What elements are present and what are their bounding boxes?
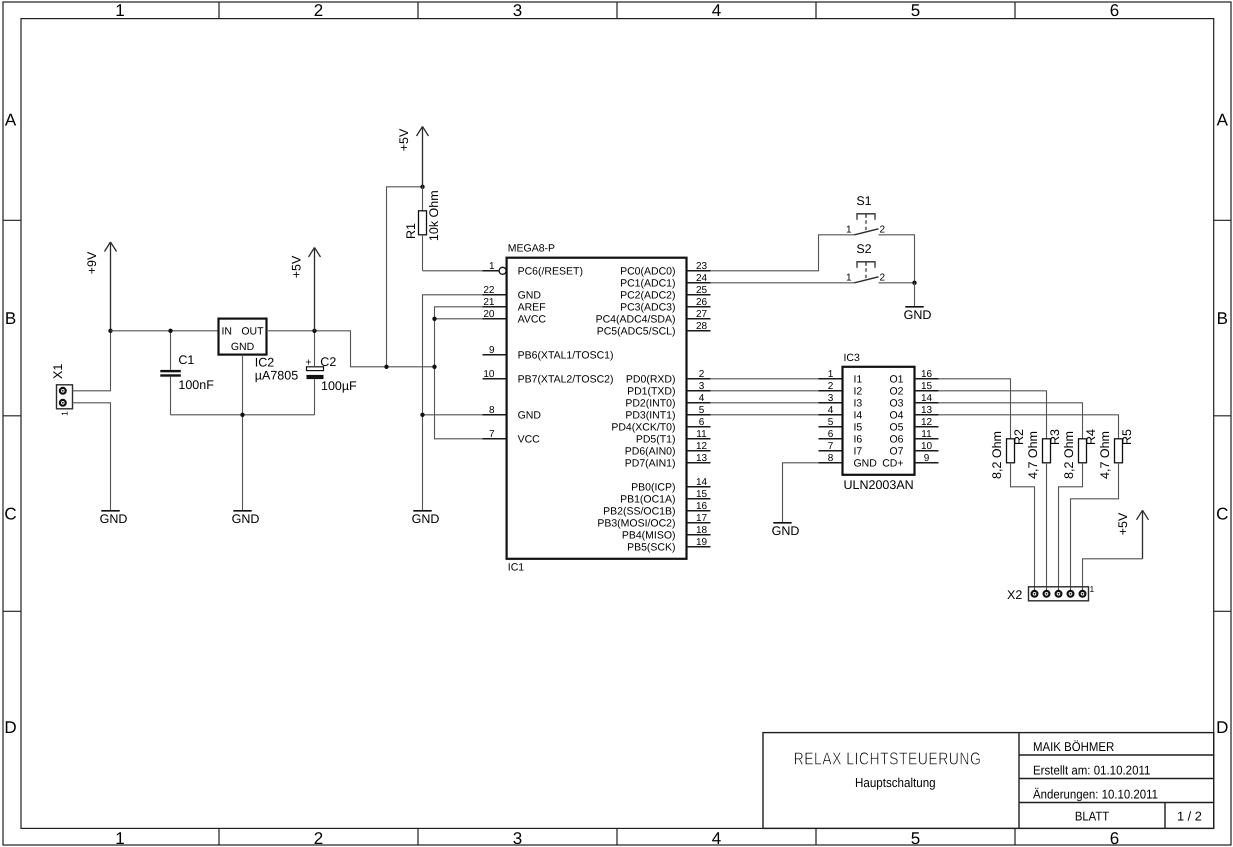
- svg-text:8: 8: [489, 405, 495, 416]
- wire IC3 O4 to R5: [939, 415, 1119, 439]
- node junction AVCC: [432, 317, 436, 321]
- supply +5V above C2: [309, 248, 321, 331]
- node junction IC2 gnd rail: [240, 413, 244, 417]
- wire C1 bottom: [170, 377, 172, 415]
- ground symbol below IC2: [232, 511, 260, 526]
- svg-text:AREF: AREF: [518, 301, 546, 313]
- svg-text:1: 1: [828, 369, 834, 380]
- svg-text:PB2(SS/OC1B): PB2(SS/OC1B): [603, 505, 675, 517]
- svg-text:3: 3: [513, 1, 522, 20]
- svg-text:+9V: +9V: [85, 251, 99, 274]
- wire R1 to PC6 reset: [423, 270, 500, 272]
- svg-text:11: 11: [921, 429, 932, 440]
- supply +5V at X2: [1137, 510, 1149, 559]
- svg-text:2: 2: [880, 225, 886, 236]
- svg-text:I4: I4: [854, 409, 863, 421]
- svg-text:1: 1: [1090, 584, 1095, 594]
- svg-text:2: 2: [828, 381, 834, 392]
- wire IC1 pin24 to S2: [711, 282, 855, 284]
- svg-text:7: 7: [489, 429, 495, 440]
- svg-text:+5V: +5V: [1116, 512, 1130, 535]
- ground symbol below S2: [904, 307, 932, 322]
- svg-text:20: 20: [483, 309, 495, 320]
- svg-text:X1: X1: [51, 364, 65, 379]
- wire X1 pin2 to +9V rail: [73, 331, 111, 391]
- svg-text:I1: I1: [854, 373, 863, 385]
- svg-text:Erstellt am: 01.10.2011: Erstellt am: 01.10.2011: [1033, 763, 1150, 778]
- wire AREF/AVCC/VCC net: [435, 307, 483, 439]
- wire R2 to X2 pin1: [1011, 463, 1035, 594]
- svg-text:27: 27: [696, 309, 708, 320]
- svg-text:RELAX LICHTSTEUERUNG: RELAX LICHTSTEUERUNG: [794, 748, 982, 768]
- wire C2 bottom: [314, 379, 316, 415]
- svg-text:C1: C1: [178, 353, 194, 367]
- frame column dividers bottom: [219, 828, 1015, 845]
- svg-text:17: 17: [696, 513, 708, 524]
- frame row dividers right: [1214, 220, 1231, 611]
- svg-text:2: 2: [880, 273, 886, 284]
- IC3 right pin numbers: [921, 369, 933, 464]
- title block box: [763, 733, 1214, 829]
- svg-text:Änderungen: 10.10.2011: Änderungen: 10.10.2011: [1033, 787, 1158, 802]
- svg-text:PD6(AIN0): PD6(AIN0): [625, 445, 676, 457]
- node junction +5V rail VCC: [432, 365, 436, 369]
- svg-text:8: 8: [828, 453, 834, 464]
- svg-text:18: 18: [696, 525, 708, 536]
- svg-text:I7: I7: [854, 445, 863, 457]
- IC3 left pin names: [854, 373, 878, 469]
- frame column dividers top: [219, 2, 1015, 19]
- IC3 left pin numbers: [828, 369, 834, 464]
- resistor R2: [1007, 439, 1015, 463]
- wire IC1 pin22 GND net: [423, 295, 483, 511]
- wire IC3 O2 to R3: [939, 391, 1047, 439]
- svg-text:AVCC: AVCC: [518, 313, 547, 325]
- svg-text:µA7805: µA7805: [255, 368, 298, 382]
- svg-text:+5V: +5V: [397, 128, 411, 151]
- wire +5V rail to R1 top: [387, 187, 423, 367]
- svg-text:C: C: [1216, 505, 1228, 524]
- IC3 right pin names: [882, 373, 903, 469]
- svg-text:I2: I2: [854, 385, 863, 397]
- wire S2 pin2 to GND: [879, 282, 915, 284]
- svg-text:O5: O5: [889, 421, 903, 433]
- svg-text:9: 9: [489, 345, 495, 356]
- wire C2 top: [314, 331, 316, 367]
- ground symbol below X1: [100, 511, 128, 526]
- supply +5V above R1: [417, 127, 429, 187]
- svg-text:PC6(/RESET): PC6(/RESET): [518, 265, 583, 277]
- svg-text:22: 22: [483, 285, 495, 296]
- svg-text:10k Ohm: 10k Ohm: [427, 190, 441, 241]
- capacitor C2 polarized: [305, 357, 323, 380]
- svg-text:12: 12: [921, 417, 933, 428]
- svg-text:1: 1: [846, 225, 852, 236]
- svg-text:GND: GND: [231, 341, 255, 353]
- svg-text:3: 3: [828, 393, 834, 404]
- svg-text:D: D: [4, 718, 16, 737]
- svg-text:I5: I5: [854, 421, 863, 433]
- svg-text:PD5(T1): PD5(T1): [636, 433, 676, 445]
- svg-text:C2: C2: [320, 355, 336, 369]
- svg-text:4: 4: [712, 829, 721, 847]
- svg-text:PC4(ADC4/SDA): PC4(ADC4/SDA): [596, 313, 676, 325]
- svg-text:2: 2: [699, 369, 705, 380]
- svg-text:X2: X2: [1007, 588, 1022, 602]
- wire IC1 pin8 GND: [423, 414, 483, 416]
- svg-text:GND: GND: [518, 409, 542, 421]
- svg-text:D: D: [1216, 718, 1228, 737]
- svg-text:6: 6: [1110, 1, 1119, 20]
- svg-text:R2: R2: [1012, 429, 1026, 445]
- connector X1: [57, 385, 73, 409]
- svg-text:PD7(AIN1): PD7(AIN1): [625, 457, 676, 469]
- svg-text:GND: GND: [904, 308, 932, 322]
- svg-text:O6: O6: [889, 433, 903, 445]
- svg-text:1: 1: [115, 1, 124, 20]
- svg-text:6: 6: [828, 429, 834, 440]
- node junction X1/+9V: [108, 329, 112, 333]
- wire IC3 O1 to R2: [939, 379, 1011, 439]
- frame row letters left: [4, 111, 16, 737]
- svg-text:14: 14: [696, 477, 708, 488]
- ground symbol below IC3: [772, 523, 800, 538]
- node junction +5V rail R1 branch: [384, 365, 388, 369]
- svg-text:PC2(ADC2): PC2(ADC2): [620, 289, 675, 301]
- svg-text:I3: I3: [854, 397, 863, 409]
- microcontroller IC1 MEGA8-P box: [507, 258, 687, 559]
- svg-text:PD3(INT1): PD3(INT1): [625, 409, 675, 421]
- svg-text:10: 10: [483, 369, 495, 380]
- frame column numbers bottom: [115, 829, 1119, 847]
- svg-text:4: 4: [828, 405, 834, 416]
- svg-text:12: 12: [696, 441, 708, 452]
- svg-text:PD2(INT0): PD2(INT0): [625, 397, 675, 409]
- wire IC3 pin8 to GND: [783, 463, 819, 523]
- svg-text:5: 5: [911, 1, 920, 20]
- svg-text:A: A: [5, 111, 17, 130]
- resistor R5: [1115, 439, 1123, 463]
- resistor R3: [1043, 439, 1051, 463]
- svg-text:28: 28: [696, 321, 708, 332]
- svg-text:4: 4: [712, 1, 721, 20]
- svg-text:PC3(ADC3): PC3(ADC3): [620, 301, 675, 313]
- svg-text:GND: GND: [772, 524, 800, 538]
- svg-text:2: 2: [314, 1, 323, 20]
- svg-text:5: 5: [911, 829, 920, 847]
- svg-text:O4: O4: [889, 409, 903, 421]
- frame column numbers top: [115, 1, 1119, 20]
- svg-text:19: 19: [696, 537, 708, 548]
- svg-text:3: 3: [513, 829, 522, 847]
- svg-text:GND: GND: [412, 512, 440, 526]
- IC1 left pin stubs: [483, 271, 507, 439]
- IC3 left pin stubs: [819, 379, 843, 463]
- svg-text:14: 14: [921, 393, 933, 404]
- wire down to GND below S2: [914, 283, 916, 307]
- svg-text:10: 10: [921, 441, 933, 452]
- wire IC1 pin23 to S1: [711, 235, 855, 271]
- svg-text:ULN2003AN: ULN2003AN: [844, 478, 914, 492]
- node junction C1 top: [168, 329, 172, 333]
- svg-text:PB4(MISO): PB4(MISO): [622, 529, 676, 541]
- svg-text:PD1(TXD): PD1(TXD): [627, 385, 675, 397]
- svg-text:I6: I6: [854, 433, 863, 445]
- svg-text:O7: O7: [889, 445, 903, 457]
- svg-text:GND: GND: [100, 512, 128, 526]
- svg-text:B: B: [1217, 309, 1228, 328]
- svg-text:CD+: CD+: [882, 457, 903, 469]
- IC3 right pin stubs: [915, 379, 939, 463]
- svg-text:PB5(SCK): PB5(SCK): [627, 541, 675, 553]
- svg-text:26: 26: [696, 297, 708, 308]
- svg-text:9: 9: [924, 453, 930, 464]
- svg-text:4,7 Ohm: 4,7 Ohm: [1098, 431, 1112, 479]
- svg-text:MAIK BÖHMER: MAIK BÖHMER: [1033, 739, 1114, 754]
- svg-text:2: 2: [314, 829, 323, 847]
- svg-text:PD0(RXD): PD0(RXD): [626, 373, 676, 385]
- svg-text:5: 5: [699, 405, 705, 416]
- svg-text:16: 16: [921, 369, 933, 380]
- svg-text:VCC: VCC: [518, 433, 541, 445]
- node junction S2 GND: [912, 281, 916, 285]
- wires IC1 PD0-PD3 to IC3 I1-I4: [711, 379, 819, 415]
- svg-text:C: C: [4, 505, 16, 524]
- svg-text:13: 13: [921, 405, 933, 416]
- svg-text:MEGA8-P: MEGA8-P: [508, 242, 555, 254]
- svg-text:Hauptschaltung: Hauptschaltung: [855, 775, 936, 790]
- voltage regulator IC2 box: [219, 319, 267, 355]
- connector X2: [1029, 587, 1089, 601]
- wire R3 to X2 pin2: [1046, 463, 1048, 594]
- svg-text:GND: GND: [232, 512, 260, 526]
- wire gnd rail C1 to C2: [171, 414, 315, 416]
- supply +9V: [105, 242, 117, 331]
- svg-text:PC0(ADC0): PC0(ADC0): [620, 265, 675, 277]
- svg-text:S1: S1: [856, 194, 871, 208]
- IC1 right pin numbers: [696, 261, 708, 548]
- svg-text:1: 1: [60, 411, 70, 416]
- wire AVCC stub join: [435, 318, 483, 320]
- svg-text:GND: GND: [518, 289, 542, 301]
- svg-text:O1: O1: [889, 373, 903, 385]
- svg-text:PD4(XCK/T0): PD4(XCK/T0): [611, 421, 675, 433]
- svg-text:R4: R4: [1084, 429, 1098, 445]
- svg-text:1: 1: [489, 261, 495, 272]
- svg-text:6: 6: [1110, 829, 1119, 847]
- wire IC2 GND down: [242, 355, 244, 511]
- svg-text:6: 6: [699, 417, 705, 428]
- svg-text:+: +: [305, 357, 311, 369]
- driver IC3 ULN2003AN box: [843, 367, 915, 475]
- wire +9V rail to IC2 IN: [111, 330, 219, 332]
- svg-text:7: 7: [828, 441, 834, 452]
- svg-text:25: 25: [696, 285, 708, 296]
- switch S2: [846, 262, 886, 284]
- svg-text:5: 5: [828, 417, 834, 428]
- svg-text:O3: O3: [889, 397, 903, 409]
- wire R5 to X2 pin4: [1071, 463, 1119, 594]
- node junction R1 top: [420, 185, 424, 189]
- svg-text:1: 1: [115, 829, 124, 847]
- svg-text:S2: S2: [856, 242, 871, 256]
- svg-text:21: 21: [483, 297, 495, 308]
- svg-text:GND: GND: [854, 457, 878, 469]
- inverter circle PC6: [499, 267, 506, 274]
- IC1 left pin names: [518, 265, 614, 445]
- wire IC2 OUT to +5V net: [267, 331, 435, 367]
- resistor R4: [1079, 439, 1087, 463]
- svg-text:+5V: +5V: [290, 255, 304, 278]
- svg-text:B: B: [5, 309, 16, 328]
- svg-text:8,2 Ohm: 8,2 Ohm: [990, 431, 1004, 479]
- wire IC3 O3 to R4: [939, 403, 1083, 439]
- svg-text:R5: R5: [1120, 429, 1134, 445]
- wire +5V to X2 pin5: [1083, 559, 1143, 594]
- svg-text:PB7(XTAL2/TOSC2): PB7(XTAL2/TOSC2): [518, 373, 614, 385]
- node junction C2 top: [312, 329, 316, 333]
- svg-text:24: 24: [696, 273, 708, 284]
- svg-text:R3: R3: [1048, 429, 1062, 445]
- svg-text:IC1: IC1: [508, 562, 525, 574]
- IC1 right pin names: [596, 265, 676, 553]
- svg-text:4: 4: [699, 393, 705, 404]
- resistor R1: [419, 187, 427, 271]
- svg-text:PB0(ICP): PB0(ICP): [631, 481, 675, 493]
- wire C1 top: [170, 331, 172, 370]
- svg-text:O2: O2: [889, 385, 903, 397]
- svg-text:15: 15: [696, 489, 708, 500]
- svg-text:23: 23: [696, 261, 708, 272]
- wire R4 to X2 pin3: [1059, 463, 1083, 594]
- capacitor C1: [160, 370, 181, 377]
- svg-text:IN: IN: [222, 325, 233, 337]
- svg-text:OUT: OUT: [241, 325, 264, 337]
- svg-text:IC3: IC3: [844, 352, 861, 364]
- svg-text:PC1(ADC1): PC1(ADC1): [620, 277, 675, 289]
- svg-text:1: 1: [846, 273, 852, 284]
- svg-text:4,7 Ohm: 4,7 Ohm: [1026, 431, 1040, 479]
- frame row letters right: [1216, 111, 1228, 737]
- svg-text:15: 15: [921, 381, 933, 392]
- svg-text:PB3(MOSI/OC2): PB3(MOSI/OC2): [597, 517, 675, 529]
- svg-text:3: 3: [699, 381, 705, 392]
- svg-text:1 / 2: 1 / 2: [1177, 808, 1202, 823]
- svg-text:8,2 Ohm: 8,2 Ohm: [1062, 431, 1076, 479]
- svg-text:16: 16: [696, 501, 708, 512]
- node junction GND net pin8: [420, 413, 424, 417]
- svg-text:100µF: 100µF: [321, 379, 357, 393]
- frame row dividers left: [3, 220, 21, 611]
- ground symbol below IC1: [412, 511, 440, 526]
- wire X1 pin1 to GND: [73, 403, 111, 511]
- svg-text:A: A: [1217, 111, 1229, 130]
- svg-text:11: 11: [696, 429, 707, 440]
- svg-text:100nF: 100nF: [178, 378, 214, 392]
- svg-text:PB1(OC1A): PB1(OC1A): [620, 493, 675, 505]
- svg-text:PC5(ADC5/SCL): PC5(ADC5/SCL): [597, 325, 676, 337]
- IC1 right pin stubs: [687, 271, 711, 547]
- IC1 left pin numbers: [483, 261, 495, 440]
- svg-text:R1: R1: [404, 223, 418, 239]
- svg-text:13: 13: [696, 453, 708, 464]
- svg-text:PB6(XTAL1/TOSC1): PB6(XTAL1/TOSC1): [518, 349, 614, 361]
- svg-text:BLATT: BLATT: [1075, 808, 1109, 823]
- switch S1: [846, 214, 886, 236]
- wire S1 pin2 to GND net: [879, 235, 915, 283]
